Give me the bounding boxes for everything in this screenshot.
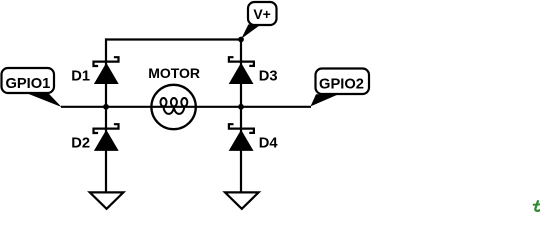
ground left (90, 192, 124, 208)
svg-text:D3: D3 (259, 69, 278, 85)
net label GPIO2 (311, 69, 370, 107)
wire top rail V+ (106, 38, 241, 40)
motor coil (161, 98, 188, 114)
svg-text:D4: D4 (259, 136, 279, 152)
ground right (225, 192, 259, 208)
svg-text:V+: V+ (253, 6, 271, 22)
svg-text:GPIO1: GPIO1 (5, 76, 50, 92)
diode D3 (229, 57, 254, 84)
diode D2 (94, 124, 119, 151)
node junction dot left (103, 104, 109, 110)
svg-text:D2: D2 (71, 136, 90, 152)
net label GPIO1 (2, 68, 62, 107)
wire left column (105, 38, 107, 192)
diode D4 (229, 124, 254, 151)
svg-text:D1: D1 (71, 69, 90, 85)
wire right column (240, 38, 242, 192)
net label V+ (241, 2, 276, 39)
node junction dot right (238, 104, 244, 110)
svg-text:GPIO2: GPIO2 (319, 77, 364, 93)
svg-text:MOTOR: MOTOR (148, 65, 200, 81)
diode D1 (94, 57, 119, 84)
motor M1 circle (151, 85, 195, 129)
wire main horizontal GPIO1 to GPIO2 (61, 106, 311, 108)
node junction dot V+ (238, 37, 244, 43)
watermark t (green) (534, 201, 540, 211)
